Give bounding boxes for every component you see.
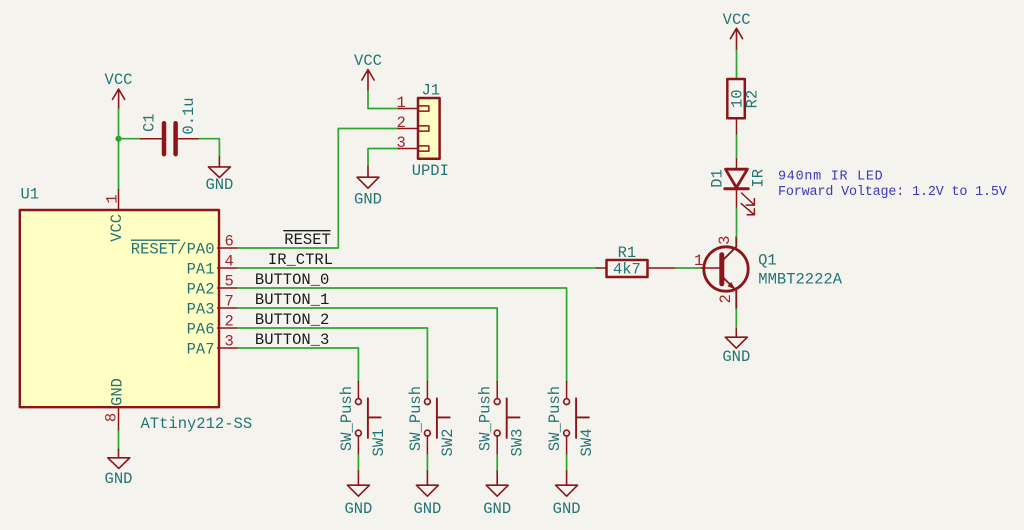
emitter arrowhead (727, 282, 735, 290)
svg-text:PA7: PA7 (187, 340, 215, 358)
pin 1 (399, 108, 419, 110)
wire R2 to D1 (736, 135, 738, 159)
svg-text:RESET/PA0: RESET/PA0 (131, 240, 215, 258)
svg-text:3: 3 (716, 236, 734, 245)
wire net BUTTON_0 (U1 pin5 to SW4) (238, 288, 567, 382)
svg-text:GND: GND (413, 500, 441, 518)
wire U1 pin 8 to GND (118, 431, 120, 450)
ground GND (SW3) (483, 471, 511, 518)
svg-text:UPDI: UPDI (412, 162, 449, 180)
capacitor C1 (140, 97, 199, 154)
svg-text:GND: GND (553, 500, 581, 518)
pin 3 (399, 148, 419, 150)
power symbol VCC (J1) (354, 52, 382, 91)
switch SW4 SW_Push (546, 382, 596, 457)
svg-text:U1: U1 (21, 185, 40, 203)
emission arrow 1 (742, 193, 755, 205)
svg-text:Q1: Q1 (758, 251, 777, 269)
svg-text:PA6: PA6 (187, 320, 215, 338)
svg-text:GND: GND (722, 348, 750, 366)
junction VCC node (115, 136, 121, 142)
svg-text:GND: GND (108, 378, 126, 406)
svg-text:IR_CTRL: IR_CTRL (268, 251, 333, 269)
svg-text:C1: C1 (140, 113, 158, 132)
svg-text:GND: GND (205, 176, 233, 194)
svg-text:ATtiny212-SS: ATtiny212-SS (141, 415, 253, 433)
wire SW4 to GND (566, 455, 568, 471)
svg-text:GND: GND (483, 500, 511, 518)
wire net IR_CTRL (U1 pin4 to R1) (238, 267, 597, 269)
collector (723, 237, 736, 260)
svg-text:R2: R2 (744, 90, 762, 109)
svg-text:BUTTON_0: BUTTON_0 (255, 271, 329, 289)
svg-text:GND: GND (105, 470, 133, 488)
transistor Q1 MMBT2222A (694, 236, 843, 309)
pin 8 GND (bottom) (118, 407, 120, 431)
svg-text:VCC: VCC (723, 11, 751, 29)
pin 5 PA2 (218, 287, 238, 289)
wire net BUTTON_1 (U1 pin7 to SW3) (238, 308, 497, 382)
svg-text:IR: IR (750, 169, 768, 188)
svg-text:Forward Voltage: 1.2V to 1.5V: Forward Voltage: 1.2V to 1.5V (778, 185, 1007, 200)
svg-text:SW1: SW1 (370, 429, 388, 457)
svg-text:SW_Push: SW_Push (546, 386, 564, 451)
net label RESET (284, 231, 331, 249)
svg-text:BUTTON_1: BUTTON_1 (255, 291, 329, 309)
wire net BUTTON_3 (U1 pin3 to SW1) (238, 348, 358, 382)
svg-text:5: 5 (225, 272, 234, 290)
power symbol VCC (left, above U1) (105, 71, 133, 109)
svg-text:SW_Push: SW_Push (407, 386, 425, 451)
pin 2 (399, 128, 419, 130)
pin 7 PA3 (218, 307, 238, 309)
switch SW1 SW_Push (338, 382, 388, 457)
pin 3 PA7 (218, 347, 238, 349)
svg-text:PA2: PA2 (187, 280, 215, 298)
svg-text:R1: R1 (618, 244, 637, 262)
svg-text:4: 4 (225, 252, 234, 270)
wire VCC to J1 pin1 (368, 91, 399, 109)
wire VCC to R2 (736, 50, 738, 79)
wire SW2 to GND (426, 455, 428, 471)
svg-text:PA3: PA3 (187, 300, 215, 318)
svg-text:7: 7 (225, 292, 234, 310)
svg-text:2: 2 (225, 312, 234, 330)
wire J1 pin3 to GND (368, 149, 399, 167)
svg-text:PA1: PA1 (187, 260, 215, 278)
svg-text:SW4: SW4 (578, 429, 596, 457)
wire R1 to Q1 base (676, 267, 702, 269)
ground GND (J1) (354, 167, 382, 209)
svg-text:MMBT2222A: MMBT2222A (758, 271, 842, 289)
svg-text:GND: GND (344, 500, 372, 518)
svg-text:BUTTON_3: BUTTON_3 (255, 331, 329, 349)
base bar (719, 255, 724, 284)
svg-text:4k7: 4k7 (613, 261, 641, 279)
svg-text:6: 6 (225, 232, 234, 250)
svg-text:0.1u: 0.1u (180, 97, 198, 134)
svg-text:1: 1 (397, 94, 406, 112)
svg-text:2: 2 (397, 114, 406, 132)
ground GND (SW1) (344, 471, 372, 518)
svg-text:GND: GND (354, 190, 382, 208)
svg-text:8: 8 (102, 413, 120, 422)
svg-text:SW_Push: SW_Push (338, 386, 356, 451)
resistor R1 (597, 244, 676, 278)
ground GND (U1) (105, 450, 133, 489)
svg-text:RESET: RESET (284, 231, 331, 249)
emission arrow 2 (741, 204, 754, 215)
resistor R2 (727, 79, 761, 135)
wire net RESET (U1 pin6 to J1 pin2) (238, 129, 399, 249)
svg-text:3: 3 (225, 332, 234, 350)
svg-text:D1: D1 (709, 169, 727, 188)
switch SW3 SW_Push (477, 382, 527, 457)
svg-text:SW2: SW2 (439, 429, 457, 457)
svg-text:VCC: VCC (108, 214, 126, 242)
wire SW1 to GND (357, 455, 359, 471)
base pin (702, 267, 720, 269)
wire Q1 emitter to GND (735, 309, 737, 329)
svg-text:VCC: VCC (354, 52, 382, 70)
emitter (723, 278, 736, 309)
svg-text:J1: J1 (422, 82, 441, 100)
svg-text:VCC: VCC (105, 71, 133, 89)
svg-text:SW3: SW3 (509, 429, 527, 457)
wire junction to C1 (119, 138, 141, 140)
LED D1 (709, 159, 768, 215)
wire SW3 to GND (496, 455, 498, 471)
pin 4 PA1 (218, 267, 238, 269)
pin 6 RESET/PA0 (218, 247, 238, 249)
ground GND (C1) (205, 157, 233, 194)
svg-text:2: 2 (717, 294, 735, 303)
connector J1 UPDI (397, 82, 449, 180)
pin 1 VCC (top) (118, 190, 120, 210)
wire VCC to U1 pin 1 (118, 109, 120, 190)
svg-text:1: 1 (694, 252, 703, 270)
wire C1 to GND (199, 139, 219, 157)
ground GND (SW4) (553, 471, 581, 518)
wire net BUTTON_2 (U1 pin2 to SW2) (238, 328, 427, 382)
ground GND (Q1) (722, 329, 750, 366)
svg-text:3: 3 (397, 134, 406, 152)
IC U1 ATtiny212-SS (20, 185, 252, 433)
power symbol VCC (R2) (723, 11, 751, 50)
pin 2 PA6 (218, 327, 238, 329)
ground GND (SW2) (413, 471, 441, 518)
svg-text:BUTTON_2: BUTTON_2 (255, 311, 329, 329)
svg-text:SW_Push: SW_Push (477, 386, 495, 451)
switch SW2 SW_Push (407, 382, 457, 457)
svg-text:1: 1 (104, 194, 122, 203)
wire D1 to Q1 collector (736, 208, 738, 236)
svg-text:940nm IR LED: 940nm IR LED (778, 169, 883, 184)
